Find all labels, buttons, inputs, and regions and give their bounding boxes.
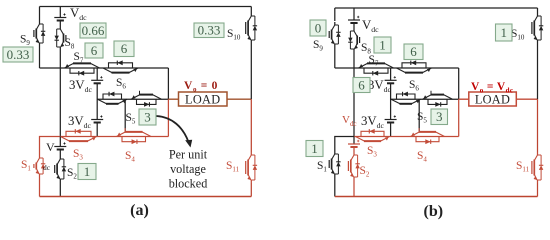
label 3Vdc upper (a) xyxy=(69,78,93,94)
wire load left (b) xyxy=(459,98,469,100)
label S2 (a) xyxy=(67,167,77,181)
label LOAD (b) xyxy=(475,93,510,107)
svg-text:S4: S4 xyxy=(125,150,135,164)
wire battery to S8 (a) xyxy=(59,21,61,27)
transistor S7 (b) xyxy=(359,63,394,75)
battery 3Vdc lower (a) xyxy=(91,115,103,122)
wire right rail top (a) xyxy=(250,7,252,14)
transistor S11 (b) xyxy=(532,152,543,183)
transistor row3-left (b) xyxy=(391,92,421,104)
svg-text:6: 6 xyxy=(121,41,128,56)
wire right rail red (b) xyxy=(537,99,539,152)
value box 3 S5 (b) xyxy=(431,109,448,125)
transistor S11 (a) xyxy=(246,152,257,183)
svg-text:S2: S2 xyxy=(360,165,370,179)
wire load left (a) xyxy=(168,98,178,100)
wire Vdc source lead (b) xyxy=(353,8,355,20)
label S10 (b) xyxy=(511,28,525,42)
transistor S8 (a) xyxy=(55,26,66,50)
svg-text:S11: S11 xyxy=(226,160,240,174)
wire top rail (a) xyxy=(40,6,252,8)
svg-text:3Vdc: 3Vdc xyxy=(361,114,385,130)
svg-text:6: 6 xyxy=(358,77,365,92)
svg-text:(a): (a) xyxy=(130,202,149,219)
wire Vdc source lead (a) xyxy=(59,7,61,18)
svg-text:S9: S9 xyxy=(20,34,30,48)
node J1 wire (b) xyxy=(335,67,356,69)
transistor S10 (a) xyxy=(246,13,257,43)
svg-text:S5: S5 xyxy=(126,112,136,126)
value box 6 S6 (b) xyxy=(404,44,423,60)
wire battery to S2 (a) xyxy=(59,150,61,157)
svg-text:6: 6 xyxy=(410,44,417,59)
svg-text:Vo = Vdc: Vo = Vdc xyxy=(471,81,513,94)
wire load right (a) xyxy=(227,98,251,100)
svg-text:S7: S7 xyxy=(74,51,84,65)
battery 3Vdc upper (b) xyxy=(385,76,397,83)
wire leg3 lower (a) xyxy=(96,123,98,137)
value box 1 S10 (b) xyxy=(496,24,513,41)
transistor S2 (b) xyxy=(348,152,359,180)
value box 3 S5 (a) xyxy=(139,109,156,125)
transistor S9 (a) xyxy=(34,21,45,46)
transistor S4 (a) xyxy=(117,128,152,144)
label S8 (a) xyxy=(65,37,75,51)
svg-text:voltage: voltage xyxy=(170,162,206,176)
wire row4 red S4 (a) xyxy=(97,136,168,138)
label S5 (a) xyxy=(126,112,136,126)
wire row3 (b) xyxy=(391,98,459,100)
label S1 (b) xyxy=(317,160,327,174)
transistor S5 (a) xyxy=(131,91,162,107)
wire load right (b) xyxy=(516,98,537,100)
label S11 (b) xyxy=(516,160,530,174)
wire bottom rail red (a) xyxy=(40,196,252,198)
transistor S3 (a) xyxy=(61,129,97,141)
wire right rail bottom red (a) xyxy=(250,183,252,197)
svg-text:S1: S1 xyxy=(21,159,31,173)
svg-text:Vo = 0: Vo = 0 xyxy=(184,80,218,93)
wire row4 red S3 (b) xyxy=(354,136,391,138)
svg-text:S6: S6 xyxy=(409,79,419,93)
value box 6 S6 (a) xyxy=(114,41,134,57)
wire leg3 mid (a) xyxy=(96,83,98,119)
label S6 (a) xyxy=(116,77,126,91)
label S9 (a) xyxy=(20,34,30,48)
label S4 (b) xyxy=(417,150,427,164)
wire right rail mid (a) xyxy=(250,43,252,99)
wire left rail to junction (a) xyxy=(39,46,41,68)
transistor S1 (b) xyxy=(329,151,340,177)
svg-text:0: 0 xyxy=(315,20,322,35)
label S7 (a) xyxy=(74,51,84,65)
wire leg3 mid (b) xyxy=(390,83,392,119)
svg-text:(b): (b) xyxy=(424,203,444,220)
label Vdc (b) xyxy=(362,18,379,34)
wire row3 (a) xyxy=(97,98,168,100)
svg-text:Per unit: Per unit xyxy=(169,148,208,162)
svg-text:S1: S1 xyxy=(317,160,327,174)
svg-text:blocked: blocked xyxy=(169,177,208,191)
svg-text:1: 1 xyxy=(84,164,91,179)
wire load node vertical red (b) xyxy=(458,99,460,136)
svg-text:LOAD: LOAD xyxy=(475,93,510,107)
wire junction row3 to S4 collector (b) xyxy=(418,99,420,132)
transistor S6 (b) xyxy=(397,60,432,72)
value box 0.66 S8 (a) xyxy=(80,23,106,38)
label S7 (b) xyxy=(369,54,379,68)
caption (a) xyxy=(130,202,149,219)
wire S1 to bottom rail (b) xyxy=(334,177,336,197)
svg-text:1: 1 xyxy=(379,37,386,52)
wire left rail to junction (b) xyxy=(334,47,336,68)
svg-text:dc: dc xyxy=(43,163,51,172)
label S3 (a) xyxy=(73,148,83,162)
svg-text:3: 3 xyxy=(144,109,151,124)
annotation curved arrow (a) xyxy=(157,116,193,148)
transistor S3 (b) xyxy=(356,129,390,141)
wire S1 to bottom rail (a) xyxy=(39,177,41,197)
battery Vdc (b) xyxy=(348,16,360,23)
svg-text:0.66: 0.66 xyxy=(82,23,105,38)
svg-text:1: 1 xyxy=(311,141,318,156)
wire S6 row (b) xyxy=(391,67,459,69)
svg-text:S5: S5 xyxy=(417,111,427,125)
wire leg3 upper (b) xyxy=(390,68,392,80)
label 3Vdc lower (b) xyxy=(361,114,385,130)
svg-text:S2: S2 xyxy=(67,167,77,181)
label S9 (b) xyxy=(313,39,323,53)
value box 0 S9 (b) xyxy=(310,20,326,36)
wire right rail mid (b) xyxy=(537,43,539,99)
label V (a) xyxy=(46,140,55,154)
value box 0.33 S9 (a) xyxy=(3,47,33,62)
battery 3Vdc upper (a) xyxy=(91,76,103,83)
label S11 (a) xyxy=(226,160,240,174)
svg-text:0.33: 0.33 xyxy=(198,23,221,38)
wire top rail (b) xyxy=(335,7,538,9)
wire S7 row (a) xyxy=(63,67,97,69)
wire load node vertical red (a) xyxy=(167,99,169,136)
value box 6 S7 (a) xyxy=(85,43,103,58)
label S2 (b) xyxy=(360,165,370,179)
value box 0.33 S10 (a) xyxy=(194,23,224,38)
svg-text:S11: S11 xyxy=(516,160,530,174)
wire S6 row (a) xyxy=(97,67,168,69)
battery Vdc (a) xyxy=(54,13,66,20)
wire S7 row (b) xyxy=(356,67,391,69)
label V0=Vdc (b) xyxy=(471,81,513,94)
label S4 (a) xyxy=(125,150,135,164)
label LOAD (a) xyxy=(185,93,220,107)
wire node N1 to S1 (a) xyxy=(40,137,61,156)
wire bottom rail red (b) xyxy=(335,196,538,198)
wire right rail top (b) xyxy=(537,8,539,13)
wire S6 to load node (b) xyxy=(458,68,460,99)
svg-text:1: 1 xyxy=(501,25,508,40)
wire leg2 to V battery (b) xyxy=(353,137,355,145)
svg-text:V: V xyxy=(46,140,55,154)
transistor S1 (a) xyxy=(34,155,45,177)
wire left rail upper (a) xyxy=(39,7,41,22)
svg-text:S6: S6 xyxy=(116,77,126,91)
load box (a) xyxy=(179,92,228,106)
wire row4 red S3 (a) xyxy=(60,136,97,138)
svg-text:S4: S4 xyxy=(417,150,427,164)
wire leg3 lower (b) xyxy=(390,123,392,137)
label S5 (b) xyxy=(417,111,427,125)
wire battery to S2 red (b) xyxy=(353,147,355,152)
label Vdc red (b) xyxy=(342,114,357,128)
svg-text:3Vdc: 3Vdc xyxy=(69,78,93,94)
battery Vdc bottom (b) xyxy=(348,140,360,147)
value box 1 S1 (b) xyxy=(306,141,323,157)
transistor S4 (b) xyxy=(411,128,445,144)
transistor S6b row3-left (a) xyxy=(98,92,128,104)
svg-text:Vdc: Vdc xyxy=(362,18,379,34)
wire left rail upper (b) xyxy=(334,8,336,21)
wire battery to S8 (b) xyxy=(353,23,355,28)
load box (b) xyxy=(469,92,517,106)
label S3 (b) xyxy=(367,145,377,159)
label 3Vdc upper (b) xyxy=(368,78,392,94)
battery 3Vdc lower (b) xyxy=(385,115,397,122)
transistor S5 (b) xyxy=(423,91,453,107)
transistor S9 (b) xyxy=(329,22,340,47)
svg-text:LOAD: LOAD xyxy=(185,93,220,107)
transistor S2 (a) xyxy=(55,156,66,182)
label V0=0 (a) xyxy=(184,80,218,93)
svg-text:3: 3 xyxy=(436,109,443,124)
label S10 (a) xyxy=(227,28,241,42)
wire leg2 S8 to node N1 (a) xyxy=(59,50,61,137)
wire leg2 S8 to node N1 (b) xyxy=(353,52,355,137)
svg-text:Vdc: Vdc xyxy=(70,6,87,22)
transistor S6 (a) xyxy=(103,60,138,72)
node J1 wire (a) xyxy=(40,67,64,69)
annotation per-unit text (a) xyxy=(169,148,208,191)
battery V bottom (a) xyxy=(54,142,66,149)
wire right rail red (a) xyxy=(250,99,252,152)
label S6 (b) xyxy=(409,79,419,93)
label S8 (b) xyxy=(361,42,371,56)
wire S6 to load node (a) xyxy=(167,68,169,99)
wire node N1 to S1 (b) xyxy=(335,137,354,152)
svg-text:S8: S8 xyxy=(65,37,75,51)
svg-text:6: 6 xyxy=(91,43,98,58)
wire row4 red S4 (b) xyxy=(391,136,459,138)
transistor S8 (b) xyxy=(348,28,359,52)
svg-text:S10: S10 xyxy=(511,28,525,42)
label 3Vdc lower (a) xyxy=(68,114,92,130)
svg-text:S7: S7 xyxy=(369,54,379,68)
label Vdc (a) xyxy=(70,6,87,22)
svg-text:S3: S3 xyxy=(367,145,377,159)
wire right rail bottom red (b) xyxy=(537,183,539,197)
svg-text:S10: S10 xyxy=(227,28,241,42)
wire leg2 to V battery (a) xyxy=(59,137,61,147)
transistor S7 (a) xyxy=(65,63,100,75)
label S1 (a) xyxy=(21,159,31,173)
value box 1 S8 (b) xyxy=(374,37,391,53)
value box 1 S2 (a) xyxy=(78,164,96,180)
wire leg3 upper (a) xyxy=(96,68,98,80)
wire S2 to bottom rail (a) xyxy=(59,182,61,197)
transistor S10 (b) xyxy=(532,13,543,43)
wire S2 to bottom rail (b) xyxy=(353,180,355,197)
svg-text:3Vdc: 3Vdc xyxy=(68,114,92,130)
value box 6 S7 (b) xyxy=(353,77,370,92)
label dc of V (a) xyxy=(43,163,51,172)
svg-text:S9: S9 xyxy=(313,39,323,53)
svg-text:S3: S3 xyxy=(73,148,83,162)
wire junction row3 to S4 collector (a) xyxy=(124,99,126,132)
caption (b) xyxy=(424,203,444,220)
svg-text:0.33: 0.33 xyxy=(7,47,30,62)
